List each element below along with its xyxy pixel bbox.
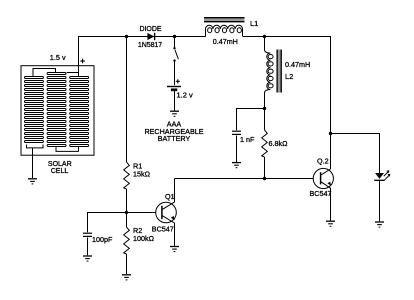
svg-text:DIODE: DIODE bbox=[140, 26, 162, 33]
svg-text:0.47mH: 0.47mH bbox=[285, 60, 310, 69]
ground (LED) bbox=[375, 222, 384, 227]
wire Q1 emitter to ground bbox=[174, 223, 176, 246]
resistor R3 6.8k bbox=[262, 130, 268, 157]
battery B1 bbox=[167, 87, 181, 90]
resistor R1 15k bbox=[124, 162, 130, 189]
capacitor C2 1nF bbox=[232, 131, 241, 134]
ground (Q2 emitter) bbox=[326, 221, 335, 226]
wire switch to battery bbox=[174, 62, 176, 86]
node LED tap junction bbox=[329, 132, 332, 135]
svg-text:Q.2: Q.2 bbox=[317, 157, 329, 166]
wire Q1 collector riser bbox=[174, 179, 176, 203]
wire solar cell positive lead bbox=[78, 37, 80, 73]
svg-text:CELL: CELL bbox=[51, 168, 69, 175]
wire LED to ground bbox=[379, 181, 381, 221]
wire R2 to ground bbox=[126, 254, 128, 274]
node battery tap junction bbox=[173, 35, 176, 38]
node base wire junction bbox=[263, 177, 266, 180]
inductor L2 bbox=[265, 37, 274, 109]
node R1 R2 base junction bbox=[125, 211, 128, 214]
core of L1 bbox=[204, 17, 245, 22]
wire L2 bottom node to C2 bbox=[236, 108, 265, 110]
wire top bus from L1 to Q2 collector corner bbox=[243, 36, 331, 38]
svg-text:BC547: BC547 bbox=[310, 189, 332, 198]
wire base node to R2 bbox=[126, 213, 128, 228]
wire battery to ground bbox=[174, 91, 176, 111]
inductor L1 bbox=[206, 25, 243, 36]
svg-text:1 nF: 1 nF bbox=[240, 135, 255, 144]
svg-text:100kΩ: 100kΩ bbox=[133, 234, 155, 243]
wire top bus to R1 bbox=[126, 37, 128, 163]
wire C1 to ground bbox=[87, 238, 89, 256]
label + (solar cell positive terminal) bbox=[80, 59, 85, 64]
label + (battery positive) bbox=[176, 79, 180, 83]
svg-text:BC547: BC547 bbox=[152, 225, 174, 234]
svg-text:L1: L1 bbox=[250, 19, 258, 28]
ground (solar cell negative) bbox=[28, 148, 37, 184]
wire node to R3 bbox=[264, 109, 266, 131]
capacitor C1 100pF bbox=[83, 233, 92, 236]
wire base node to Q1 base bbox=[127, 212, 156, 214]
transistor Q1 BC547 bbox=[156, 202, 177, 223]
svg-text:15kΩ: 15kΩ bbox=[133, 169, 151, 178]
wire top bus from solar cell to L1 bbox=[78, 36, 206, 38]
wire R1 to base node bbox=[126, 189, 128, 213]
node R1 tap junction bbox=[125, 35, 128, 38]
LED D2 bbox=[374, 170, 390, 180]
svg-text:100pF: 100pF bbox=[92, 235, 113, 244]
svg-text:1N5817: 1N5817 bbox=[138, 42, 162, 49]
ground (battery negative) bbox=[170, 111, 179, 116]
svg-text:BATTERY: BATTERY bbox=[158, 134, 191, 143]
wire C2 to ground bbox=[236, 136, 238, 163]
wire top bus down to Q2 collector bbox=[330, 37, 332, 170]
ground (R2) bbox=[122, 275, 131, 280]
ground (Q1 emitter) bbox=[170, 247, 179, 252]
transistor Q2 BC547 bbox=[313, 168, 333, 188]
resistor R2 100k bbox=[124, 227, 130, 254]
wire LED branch bbox=[331, 133, 381, 135]
ground (C1) bbox=[83, 256, 92, 261]
svg-text:1.2 v: 1.2 v bbox=[177, 91, 194, 100]
svg-text:0.47mH: 0.47mH bbox=[213, 37, 238, 46]
wire R3 to base wire bbox=[264, 157, 266, 179]
svg-text:L2: L2 bbox=[285, 72, 293, 81]
switch S1 bbox=[173, 37, 178, 62]
svg-text:6.8kΩ: 6.8kΩ bbox=[269, 139, 289, 148]
diode D1 1N5817 bbox=[147, 33, 154, 40]
wire base node to C1 corner bbox=[87, 212, 127, 214]
node L2 tap junction bbox=[263, 35, 266, 38]
core of L2 bbox=[277, 50, 282, 93]
ground (C2) bbox=[232, 163, 241, 168]
wire Q1 collector to Q2 base bbox=[175, 178, 314, 180]
svg-text:Q1: Q1 bbox=[165, 192, 175, 201]
node capacitor C2 tap junction bbox=[263, 107, 266, 110]
wire Q2 emitter to ground bbox=[330, 188, 332, 221]
svg-text:1.5 v: 1.5 v bbox=[50, 53, 66, 62]
solar cell PV1 bbox=[21, 66, 94, 156]
